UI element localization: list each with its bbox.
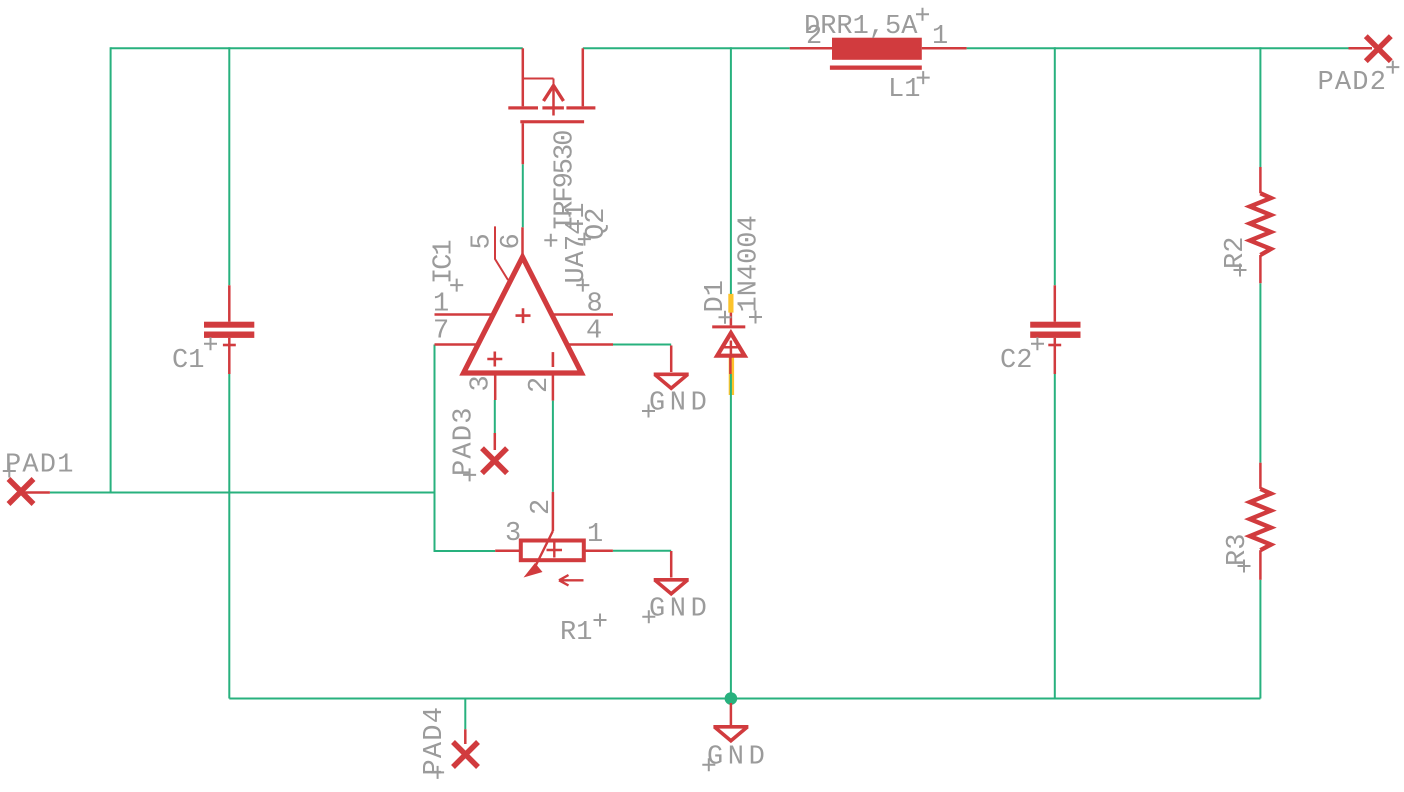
label GND3 bbox=[702, 743, 769, 773]
origin cross Q2 bbox=[578, 233, 591, 246]
svg-text:5: 5 bbox=[468, 233, 498, 249]
label PAD1 bbox=[3, 451, 75, 481]
svg-text:PAD1: PAD1 bbox=[5, 451, 75, 481]
ground GND2 bbox=[654, 551, 689, 594]
svg-text:GND: GND bbox=[649, 595, 711, 625]
svg-text:8: 8 bbox=[587, 290, 603, 320]
wire C2 column lower bbox=[1054, 374, 1056, 699]
wire C2 column upper bbox=[1054, 47, 1056, 285]
label PAD4 bbox=[420, 706, 450, 779]
origin cross IRF9530 bbox=[544, 234, 557, 247]
svg-text:2: 2 bbox=[525, 377, 555, 393]
wire R3 column lower bbox=[1259, 580, 1261, 699]
wire D1 column lower bbox=[730, 374, 732, 699]
svg-text:R1: R1 bbox=[560, 618, 592, 648]
svg-text:1: 1 bbox=[587, 520, 603, 550]
label GND2 bbox=[642, 595, 711, 625]
svg-text:1: 1 bbox=[433, 290, 449, 320]
wire pin4 to GND1 bbox=[613, 344, 671, 346]
pad PAD4 bbox=[453, 729, 478, 767]
wire top rail left segment bbox=[111, 47, 523, 49]
label C2 bbox=[1000, 337, 1044, 376]
svg-text:GND: GND bbox=[649, 389, 711, 419]
wire PAD1 horizontal bbox=[50, 492, 435, 494]
label PAD3 bbox=[450, 406, 480, 481]
svg-text:IC1: IC1 bbox=[430, 241, 460, 284]
label C1 bbox=[172, 337, 217, 376]
ground GND1 bbox=[654, 346, 689, 389]
svg-text:3: 3 bbox=[467, 375, 497, 391]
svg-text:7: 7 bbox=[433, 317, 449, 347]
diode D1 bbox=[712, 313, 745, 374]
svg-text:C1: C1 bbox=[172, 346, 204, 376]
svg-text:UA741: UA741 bbox=[562, 202, 592, 283]
wire R2 column upper bbox=[1259, 47, 1261, 167]
resistor R3 bbox=[1250, 463, 1271, 580]
origin cross L1 bbox=[917, 71, 930, 84]
svg-text:D1: D1 bbox=[701, 280, 731, 312]
label GND1 bbox=[642, 389, 711, 419]
wire D1 column upper bbox=[730, 47, 732, 294]
svg-text:C2: C2 bbox=[1000, 346, 1032, 376]
wire bottom rail bbox=[229, 698, 1260, 700]
svg-text:L1: L1 bbox=[888, 75, 920, 105]
origin cross IC1 bbox=[450, 279, 463, 292]
origin cross D1 bbox=[719, 311, 732, 324]
svg-text:6: 6 bbox=[497, 233, 527, 249]
svg-text:2: 2 bbox=[806, 22, 822, 52]
transistor Q2 bbox=[508, 48, 595, 164]
junction dot bottom rail node bbox=[725, 692, 738, 705]
wire C1 column upper bbox=[228, 47, 230, 285]
potentiometer R1 bbox=[495, 492, 613, 586]
wire top rail right segment bbox=[967, 47, 1349, 49]
origin cross R2 bbox=[1234, 264, 1247, 277]
pad PAD2 bbox=[1349, 36, 1391, 61]
svg-text:GND: GND bbox=[707, 743, 769, 773]
origin cross UA741 bbox=[576, 279, 589, 292]
wire gate net bbox=[522, 164, 524, 227]
svg-text:R3: R3 bbox=[1223, 534, 1253, 566]
pad PAD3 bbox=[482, 433, 507, 473]
wire opamp pin7 column bbox=[434, 345, 436, 552]
svg-text:PAD3: PAD3 bbox=[450, 406, 480, 476]
svg-text:4: 4 bbox=[586, 317, 602, 347]
bus highlight yellow lower bbox=[729, 353, 734, 395]
resistor R2 bbox=[1250, 167, 1271, 283]
wire R2 to R3 bbox=[1259, 283, 1261, 463]
origin cross R3 bbox=[1238, 560, 1251, 573]
label PAD2 bbox=[1318, 61, 1400, 98]
svg-text:PAD4: PAD4 bbox=[420, 706, 450, 776]
svg-text:PAD2: PAD2 bbox=[1318, 68, 1388, 98]
wire pin3 to PAD3 bbox=[494, 400, 496, 433]
capacitor C2 bbox=[1030, 285, 1080, 374]
bus highlight yellow upper bbox=[728, 294, 733, 313]
wire R1 pin3 row bbox=[434, 550, 496, 552]
wire R1 pin1 to GND2 bbox=[613, 550, 671, 552]
svg-text:3: 3 bbox=[505, 519, 521, 549]
wire left column bbox=[110, 47, 112, 492]
svg-text:1: 1 bbox=[932, 22, 948, 52]
origin cross R1 bbox=[594, 614, 607, 627]
pad PAD1 bbox=[9, 479, 50, 504]
ground GND3 bbox=[713, 703, 748, 741]
inductor L1 bbox=[790, 38, 967, 70]
wire C1 column lower bbox=[228, 374, 230, 699]
op-amp IC1 bbox=[435, 226, 614, 400]
origin cross DRR1,5A bbox=[916, 8, 929, 21]
svg-text:2: 2 bbox=[527, 499, 557, 515]
svg-text:R2: R2 bbox=[1221, 237, 1251, 269]
wire top rail middle segment bbox=[583, 47, 790, 49]
capacitor C1 bbox=[204, 285, 254, 374]
wire pin2 to R1 wiper bbox=[552, 401, 554, 492]
svg-text:1N4004: 1N4004 bbox=[735, 215, 765, 312]
wire PAD4 drop bbox=[464, 699, 466, 730]
origin cross 1N4004 bbox=[749, 311, 762, 324]
